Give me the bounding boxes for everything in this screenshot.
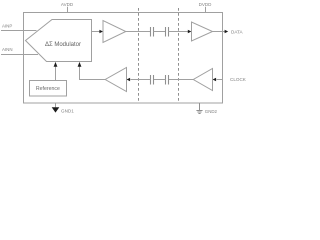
- wire C4 to C3: [154, 79, 166, 81]
- arrowhead into B1: [99, 30, 103, 34]
- delta-sigma modulator pentagon: [26, 20, 92, 62]
- AINP wire: [1, 30, 37, 32]
- DATA arrowhead: [225, 30, 229, 34]
- buffer B3 (clock, right die, points left): [193, 69, 212, 91]
- svg-text:GND2: GND2: [205, 109, 218, 114]
- clock wire B4 tip to corner: [80, 66, 106, 80]
- svg-text:ΔΣ Modulator: ΔΣ Modulator: [45, 42, 81, 48]
- DVDD tick wire: [205, 7, 207, 13]
- data wire B1 to cap C1: [126, 31, 151, 33]
- DVDD label: [199, 2, 213, 13]
- svg-text:DATA: DATA: [231, 29, 244, 34]
- AINN wire: [1, 54, 38, 56]
- buffer B1 (top, left die): [103, 21, 126, 43]
- isolation barrier dashed line right: [178, 8, 180, 103]
- GND1 arrow symbol: [52, 107, 60, 112]
- buffer B2 (data, right die): [192, 22, 213, 41]
- isolation barrier dashed line left: [138, 8, 140, 103]
- capacitor C1 (top isolation cap): [151, 27, 154, 37]
- capacitor C2 (top isolation cap): [166, 27, 169, 37]
- arrowhead into B3: [213, 78, 217, 82]
- arrowhead into B4: [127, 78, 131, 82]
- svg-text:AVDD: AVDD: [61, 2, 74, 7]
- wire C2 to buffer B2: [169, 31, 189, 33]
- wire B2 to right edge: [213, 31, 223, 33]
- GND2 earth ground symbol: [196, 111, 202, 114]
- svg-text:AINP: AINP: [2, 24, 12, 29]
- AVDD label: [61, 2, 74, 13]
- svg-text:GND1: GND1: [61, 108, 74, 113]
- DATA pin stub: [223, 31, 226, 33]
- clock wire B3 to cap C4: [169, 79, 194, 81]
- Reference box: [30, 81, 67, 97]
- CLOCK pin stub: [217, 79, 223, 81]
- svg-text:CLOCK: CLOCK: [230, 77, 247, 82]
- wire C3 to buffer B4: [130, 79, 150, 81]
- AVDD tick wire: [67, 7, 69, 13]
- svg-text:AINN: AINN: [2, 47, 13, 52]
- capacitor C4 (bottom isolation cap): [166, 75, 169, 85]
- up arrowhead reference into modulator: [54, 62, 58, 67]
- wire C1 to C2: [154, 31, 166, 33]
- GND1 stem: [55, 103, 57, 107]
- reference stem wire: [55, 66, 57, 81]
- capacitor C3 (bottom isolation cap): [151, 75, 154, 85]
- arrowhead into B2: [188, 30, 192, 34]
- buffer B4 (clock, left die, points left): [105, 68, 126, 92]
- svg-text:Reference: Reference: [36, 86, 60, 92]
- GND2 stem: [199, 103, 201, 110]
- svg-text:DVDD: DVDD: [199, 2, 213, 7]
- up arrowhead clock into modulator: [78, 62, 82, 67]
- wire modulator to buffer B1: [92, 31, 100, 33]
- outer chip rectangle: [24, 13, 223, 104]
